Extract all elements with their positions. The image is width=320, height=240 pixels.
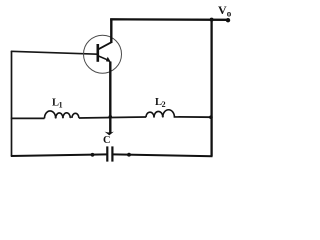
transistor Q1 collector stroke — [99, 42, 112, 49]
node: emitter junction on middle rail — [109, 115, 113, 119]
wire: base lead horizontal — [11, 51, 98, 54]
wire: top rail — [110, 18, 228, 21]
wire: middle rail right of L2 — [179, 116, 213, 118]
node: Vo output terminal dot — [226, 18, 230, 22]
wire: collector vertical up to top rail — [110, 19, 112, 44]
svg-text:C: C — [103, 135, 111, 146]
wire: emitter vertical down through middle rail — [109, 62, 111, 133]
inductor L1 — [44, 111, 70, 118]
capacitor C left plate — [106, 146, 108, 161]
node: dot on bottom rail left — [91, 153, 95, 157]
node: junction of middle rail and right vertical — [209, 115, 213, 119]
svg-text:o: o — [227, 9, 232, 19]
wire: right vertical — [210, 20, 212, 157]
wire: middle rail left of L1 — [11, 117, 45, 119]
inductor L2 — [146, 110, 179, 117]
arrowhead pointing down at capacitor label — [105, 132, 114, 136]
wire: left vertical (base loop to bottom rail) — [11, 51, 13, 156]
transistor Q1 circle — [84, 35, 122, 73]
transistor Q1 base bar — [97, 44, 100, 62]
node: junction of top rail and right vertical — [210, 18, 214, 22]
wire: bottom rail left of capacitor — [11, 154, 108, 156]
wire: bottom rail right of capacitor — [112, 154, 212, 156]
transistor Q1 emitter stroke with NPN arrowhead — [99, 56, 107, 60]
wire: middle rail between L1 and L2 — [79, 117, 146, 118]
capacitor C right plate — [111, 146, 113, 161]
svg-text:1: 1 — [59, 101, 63, 110]
svg-text:2: 2 — [162, 100, 166, 109]
svg-text:V: V — [218, 3, 227, 17]
node: dot on bottom rail right — [127, 153, 131, 157]
